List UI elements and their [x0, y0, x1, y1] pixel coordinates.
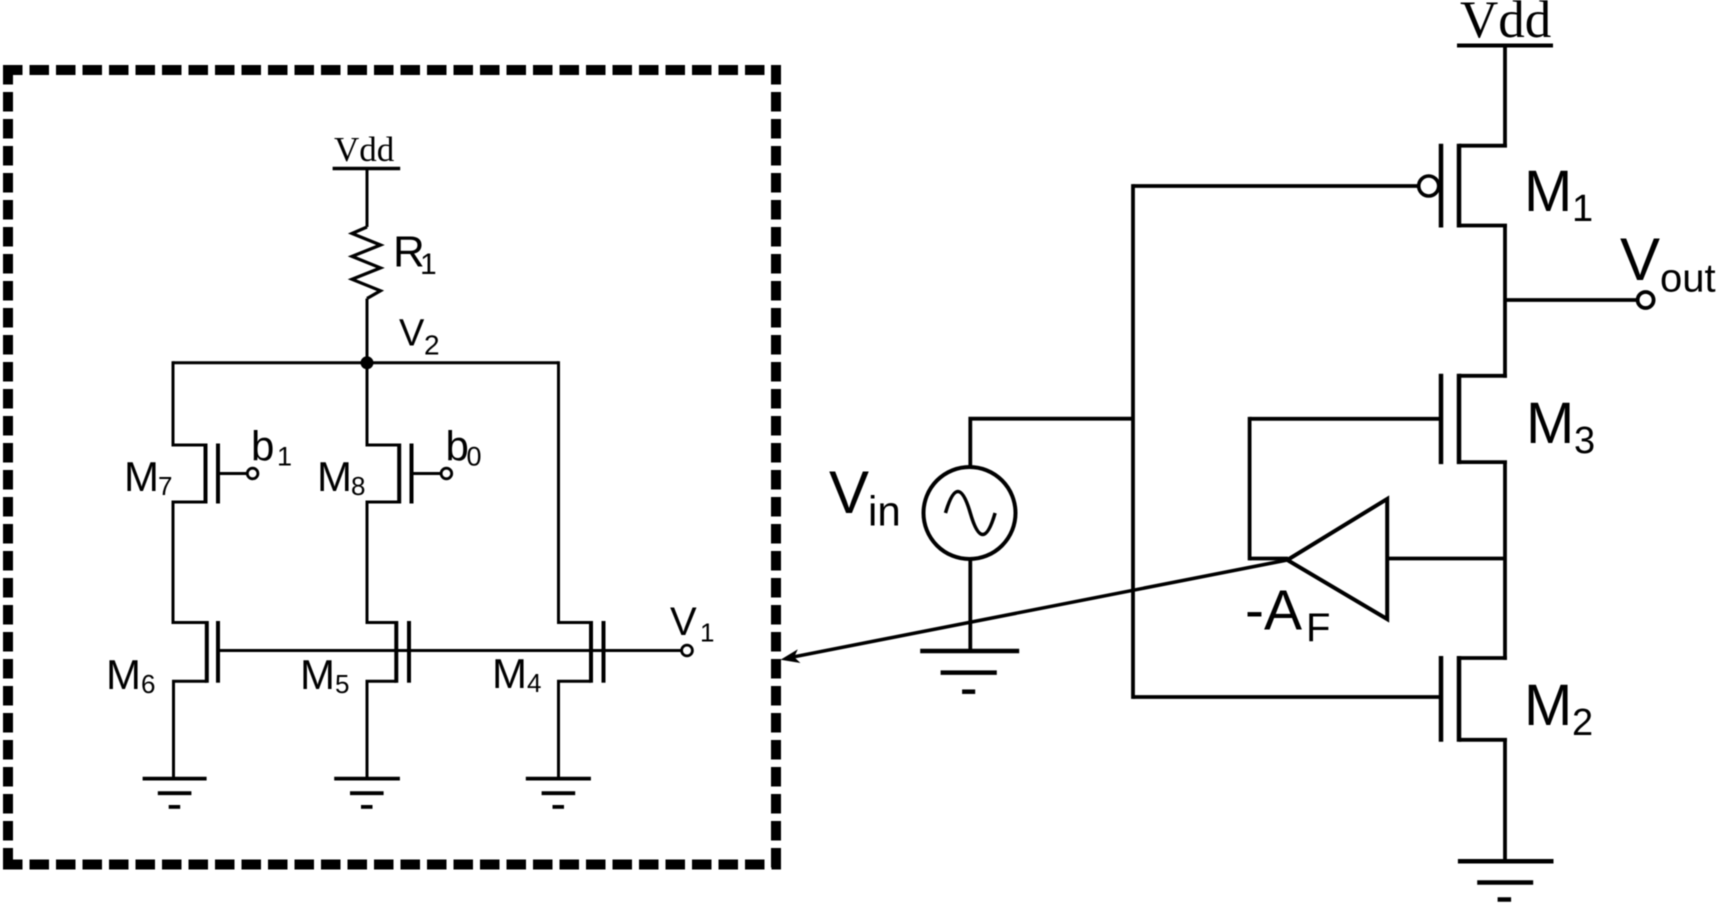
svg-text:2: 2 — [1572, 702, 1593, 744]
svg-text:1: 1 — [277, 442, 292, 472]
wire V2 rail down to M4 drain — [557, 361, 560, 624]
wire M8 source to M5 drain — [366, 502, 369, 624]
svg-text:0: 0 — [467, 442, 482, 472]
transistor M4 — [557, 621, 604, 683]
svg-text:M: M — [492, 650, 527, 697]
ground (Vin) — [920, 651, 1019, 692]
svg-text:out: out — [1660, 257, 1716, 301]
svg-text:M: M — [1524, 673, 1572, 738]
op-amp -AF (feedback amplifier triangle) — [1287, 499, 1387, 619]
svg-text:V: V — [670, 600, 697, 644]
wire Vdd to M1 source — [1503, 46, 1507, 148]
svg-text:1: 1 — [1572, 188, 1593, 230]
svg-text:b: b — [446, 423, 469, 470]
wire M4 source to ground — [557, 681, 560, 778]
wire M2 source to ground — [1503, 740, 1507, 861]
wire Vout tap — [1505, 298, 1638, 302]
transistor M1 (PMOS) — [1419, 144, 1507, 228]
svg-text:M: M — [1526, 391, 1574, 456]
terminal Vout — [1638, 292, 1654, 308]
wire M3 source to M2 drain — [1503, 462, 1507, 660]
annotation arrowhead — [781, 649, 801, 663]
wire M5 source to ground — [366, 681, 369, 778]
wire amp output to M3 gate — [1250, 417, 1441, 421]
svg-text:2: 2 — [424, 330, 440, 361]
wire Vin top to trunk — [970, 419, 1133, 466]
transistor M3 — [1441, 374, 1507, 464]
svg-text:M: M — [106, 651, 141, 698]
svg-text:M: M — [124, 453, 159, 500]
terminal V1 — [682, 645, 693, 656]
wire trunk vertical (M1 gate to M2 gate) — [1131, 184, 1135, 699]
dashed enclosure box: top edge — [3, 65, 781, 75]
dashed enclosure box: right edge — [771, 65, 781, 869]
wire amp output riser — [1248, 417, 1252, 561]
svg-text:V: V — [829, 459, 869, 526]
transistor M2 — [1441, 656, 1507, 742]
annotation arrow line (amp to V1 box) — [787, 560, 1287, 658]
wire M7 source to M6 drain — [172, 502, 175, 624]
wire trunk to M2 gate — [1133, 695, 1441, 699]
dashed enclosure box: bottom edge — [3, 860, 781, 870]
wire M1 drain to M3 drain (Vout rail) — [1503, 226, 1507, 378]
wire amp input from M3 source rail — [1387, 557, 1505, 561]
wire M6 source to ground — [172, 681, 175, 778]
transistor M5 — [366, 621, 410, 683]
svg-text:M: M — [317, 453, 352, 500]
svg-text:V: V — [399, 312, 425, 354]
wire V2 rail down to M8 drain — [366, 363, 369, 447]
svg-text:6: 6 — [141, 669, 155, 699]
wire V2 rail down to M7 drain — [172, 361, 175, 446]
transistor M6 — [172, 621, 218, 683]
svg-text:Vdd: Vdd — [1460, 0, 1551, 49]
wire Vin bottom to ground — [968, 560, 972, 651]
wire common gate line to V1 — [218, 649, 682, 652]
svg-text:in: in — [868, 488, 901, 535]
transistor M8 — [366, 444, 452, 504]
wire Vdd to R1 — [366, 169, 369, 228]
wire R1 to node V2 — [366, 299, 369, 363]
dashed enclosure box: left edge — [3, 65, 13, 869]
svg-text:3: 3 — [1574, 420, 1595, 462]
svg-text:M: M — [1524, 159, 1572, 224]
ground (M4) — [526, 779, 591, 807]
ground (M6) — [143, 779, 207, 807]
svg-text:F: F — [1306, 606, 1330, 650]
node V2 junction dot — [361, 356, 374, 369]
svg-text:Vdd: Vdd — [334, 130, 395, 169]
svg-text:7: 7 — [158, 471, 172, 501]
svg-text:b: b — [251, 423, 274, 470]
svg-text:M: M — [300, 651, 335, 698]
Vdd supply symbol (right) — [1457, 44, 1553, 48]
svg-text:5: 5 — [335, 669, 349, 699]
voltage source Vin circle — [924, 467, 1016, 559]
wire M1 gate to trunk — [1133, 184, 1419, 188]
resistor R1 — [352, 227, 381, 299]
Vdd supply symbol (left, label Vdd) — [333, 167, 401, 171]
svg-text:-A: -A — [1245, 579, 1302, 643]
svg-text:8: 8 — [351, 471, 365, 501]
svg-text:1: 1 — [420, 248, 437, 281]
sine wave inside Vin — [946, 492, 996, 535]
wire V2 horizontal rail — [173, 361, 559, 364]
ground (M2) — [1458, 861, 1554, 899]
wire amp apex to riser — [1250, 557, 1288, 561]
svg-text:V: V — [1620, 226, 1660, 293]
svg-text:4: 4 — [527, 668, 541, 698]
transistor M7 — [172, 444, 258, 504]
ground (M5) — [334, 779, 400, 807]
svg-text:1: 1 — [700, 618, 714, 648]
